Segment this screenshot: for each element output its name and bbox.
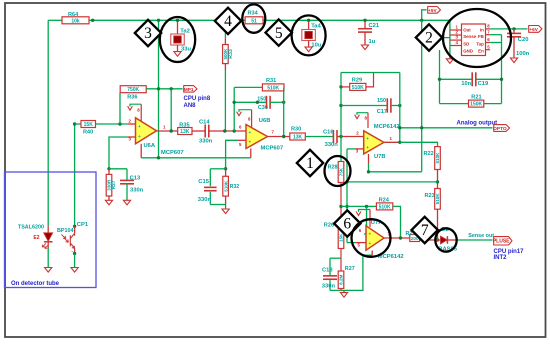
svg-text:Analog output: Analog output [457, 121, 498, 127]
wire LED supply drop [47, 20, 49, 226]
svg-text:510K: 510K [379, 204, 391, 210]
supply tag +5V [422, 10, 427, 20]
regulator U8 body [462, 24, 486, 56]
ground Ta2 [174, 52, 181, 57]
wire bias line [347, 181, 438, 183]
resistor R29 [341, 86, 350, 88]
svg-text:R36: R36 [127, 95, 137, 101]
svg-text:Ta2: Ta2 [180, 28, 190, 34]
svg-text:C30: C30 [258, 105, 268, 111]
wire feedback to output [283, 87, 285, 136]
wire regulator feedback left [439, 50, 441, 104]
svg-text:C21: C21 [369, 23, 380, 29]
svg-text:510K: 510K [435, 193, 440, 205]
wire U7A noninverting input [347, 242, 356, 244]
svg-text:510K: 510K [352, 85, 364, 91]
svg-text:5: 5 [275, 25, 283, 42]
svg-text:R33: R33 [228, 49, 234, 59]
svg-text:Tap: Tap [476, 41, 484, 46]
svg-text:INT2: INT2 [494, 255, 508, 261]
capacitor C13 [126, 169, 128, 181]
capacitor C19 [440, 78, 473, 80]
diamond 3 [135, 20, 161, 46]
capacitor Ta4 [308, 20, 310, 29]
svg-text:R29: R29 [352, 77, 362, 83]
svg-text:1u: 1u [369, 39, 376, 45]
svg-text:CP1: CP1 [77, 222, 89, 228]
svg-text:4: 4 [456, 40, 459, 45]
svg-text:R21: R21 [471, 95, 481, 101]
svg-text:Out: Out [463, 28, 471, 33]
node C18 R27 top [330, 257, 341, 259]
capacitor C14 [192, 130, 205, 132]
svg-text:1: 1 [306, 155, 314, 172]
svg-text:6: 6 [359, 228, 362, 233]
svg-text:+: + [366, 145, 369, 150]
power arrow U6B [239, 110, 252, 112]
resistor R22 [435, 147, 441, 170]
svg-text:R30: R30 [291, 127, 301, 133]
svg-text:13K: 13K [293, 135, 303, 141]
svg-text:8: 8 [248, 117, 251, 122]
svg-text:C15: C15 [198, 179, 209, 185]
wire R40 to U6A inverting input [96, 123, 129, 125]
diamond 6 [334, 210, 360, 236]
wire +5V to opamp rail [158, 20, 160, 158]
svg-text:330n: 330n [199, 138, 213, 144]
svg-text:51: 51 [251, 18, 257, 24]
svg-text:8: 8 [487, 24, 490, 29]
svg-text:+: + [369, 241, 372, 246]
wire R30 to C16 [305, 136, 333, 138]
svg-text:R35: R35 [179, 122, 189, 128]
wire analog output [400, 127, 493, 129]
svg-text:2: 2 [129, 119, 132, 124]
wire opamp ground rail [141, 157, 251, 159]
svg-text:750K: 750K [127, 87, 139, 93]
wire regulator output +6V [490, 28, 527, 30]
diode D2 [441, 236, 448, 244]
supply tag +6V [529, 26, 542, 33]
diamond 7 [412, 217, 438, 243]
wire feedback riser [233, 87, 235, 131]
svg-text:C17: C17 [377, 109, 387, 115]
wire to C15 [210, 168, 225, 170]
svg-text:+: + [249, 140, 252, 145]
junction after R64 [91, 19, 94, 22]
svg-text:15K: 15K [339, 233, 344, 242]
svg-text:GND: GND [463, 49, 473, 54]
svg-text:Sense out: Sense out [468, 233, 494, 239]
wire feedback top [341, 72, 400, 74]
svg-text:330n: 330n [130, 188, 144, 194]
wire R33 to U6B input node [224, 70, 226, 131]
power arrow U6A [130, 104, 141, 106]
svg-text:+6V: +6V [529, 27, 538, 32]
svg-text:R31: R31 [266, 78, 276, 84]
resistor R31 [234, 86, 262, 88]
capacitor C16 [332, 130, 334, 143]
svg-text:33u: 33u [181, 47, 191, 53]
wire U6B noninverting input [226, 140, 238, 169]
ellipse U7A [352, 219, 391, 257]
svg-text:Sense: Sense [463, 34, 476, 39]
wire photodiode to R40 [74, 124, 76, 226]
svg-text:SD: SD [463, 41, 469, 46]
ground stage4 [343, 290, 345, 292]
svg-text:+: + [366, 136, 369, 141]
wire U7B output [384, 141, 400, 143]
svg-text:+: + [369, 231, 372, 236]
resistor R35 [178, 128, 192, 135]
svg-text:510K: 510K [267, 85, 279, 91]
node C15 R32 top [224, 167, 227, 170]
svg-text:PLUSE: PLUSE [493, 239, 510, 245]
svg-text:MP1: MP1 [184, 87, 194, 93]
wire U6A noninverting input [109, 137, 128, 169]
wire U7B output to R22 [400, 142, 438, 146]
svg-text:AN8: AN8 [184, 103, 197, 109]
svg-text:5: 5 [487, 44, 490, 49]
diamond 5 [266, 19, 292, 45]
svg-text:MCP6142: MCP6142 [374, 124, 400, 130]
svg-text:3: 3 [144, 25, 152, 42]
svg-text:510K: 510K [223, 180, 228, 192]
svg-text:330n: 330n [325, 142, 339, 148]
ellipse D2 [435, 228, 456, 251]
svg-text:7: 7 [421, 222, 429, 239]
resistor R24 [376, 203, 392, 210]
resistor R28 [340, 160, 342, 163]
capacitor Ta2 [177, 20, 179, 34]
svg-text:Ta4: Ta4 [311, 23, 321, 29]
power arrow U7B [357, 113, 368, 115]
svg-text:En: En [478, 49, 484, 54]
resistor R37 [108, 169, 110, 175]
wire sense out [456, 239, 493, 241]
svg-text:BP104: BP104 [57, 228, 73, 234]
ground C15 R32 [222, 209, 229, 214]
svg-text:U6B: U6B [259, 118, 271, 124]
tag PLUSE [494, 237, 512, 245]
regulator U8 pins left [450, 29, 462, 31]
svg-text:R40: R40 [83, 130, 93, 136]
svg-text:C20: C20 [518, 37, 529, 43]
svg-text:10k: 10k [71, 18, 80, 24]
svg-text:150K: 150K [470, 102, 482, 108]
svg-text:150: 150 [257, 96, 266, 102]
svg-text:R34: R34 [248, 11, 259, 17]
wire minus column [340, 73, 342, 162]
svg-text:15K: 15K [84, 122, 94, 128]
ellipse regulator [443, 9, 511, 67]
svg-text:R27: R27 [345, 266, 355, 272]
resistor R25 [410, 235, 420, 242]
resistor R40 [75, 123, 81, 125]
resistor R36 [119, 88, 121, 90]
wire R36 to MP1 and output [146, 88, 182, 90]
diamond 4 [215, 8, 241, 34]
detector tube enclosure [5, 172, 97, 288]
svg-text:6: 6 [343, 216, 351, 233]
svg-text:510K: 510K [435, 152, 440, 164]
wire bias node to C13 [109, 168, 127, 170]
svg-text:C18: C18 [322, 267, 333, 273]
svg-text:2: 2 [356, 130, 359, 135]
svg-text:1: 1 [163, 125, 166, 130]
LED TSAL6200 [47, 226, 49, 232]
svg-text:In: In [480, 28, 484, 33]
wire U7B V- to rail [368, 163, 370, 172]
svg-text:+: + [138, 134, 141, 139]
ellipse R28 [325, 156, 351, 186]
wire C15 R32 bottom [210, 204, 225, 206]
ellipse R34 [242, 4, 265, 32]
ground LED [45, 268, 52, 273]
resistor R30 [290, 133, 306, 140]
ground photodiode [71, 268, 78, 273]
svg-text:10n: 10n [461, 81, 471, 87]
ground R37 [105, 200, 112, 205]
svg-text:330n: 330n [198, 197, 212, 203]
svg-text:1: 1 [390, 136, 393, 141]
ground C21 [361, 45, 368, 50]
svg-text:75K: 75K [339, 167, 344, 176]
node bias junction [107, 167, 110, 170]
svg-text:R64: R64 [68, 12, 79, 18]
svg-text:R22: R22 [424, 151, 434, 157]
svg-text:5: 5 [239, 142, 242, 147]
ellipse Ta2 [160, 17, 195, 62]
svg-text:MCP607: MCP607 [261, 145, 284, 151]
wire U7B noninverting input [347, 148, 356, 150]
svg-text:CPU pin8: CPU pin8 [184, 96, 211, 102]
wire feedback to R36 [119, 93, 121, 124]
svg-text:R24: R24 [379, 197, 390, 203]
power arrow U7A [359, 210, 371, 212]
wire R25 to D2 [420, 239, 441, 241]
wire +5V rail down right side [421, 20, 423, 172]
resistor R33 [224, 20, 226, 38]
svg-text:8.2M: 8.2M [339, 274, 344, 284]
svg-text:OPTO: OPTO [493, 126, 507, 132]
wire U7A output [384, 237, 410, 239]
svg-text:C19: C19 [478, 81, 489, 87]
wire regulator input [422, 37, 450, 39]
svg-text:8: 8 [137, 108, 140, 113]
tag OPTO [494, 125, 510, 132]
svg-text:+: + [138, 124, 141, 129]
regulator U8 pins right [486, 28, 491, 30]
resistor R27 [340, 258, 342, 271]
photodiode BP104 [73, 225, 76, 228]
wire output feedback drop [170, 89, 172, 131]
resistor R64 [62, 17, 89, 24]
resistor R26 [338, 227, 344, 249]
svg-text:On detector tube: On detector tube [11, 281, 60, 287]
svg-text:7: 7 [487, 29, 490, 34]
svg-text:C14: C14 [199, 120, 210, 126]
svg-text:2: 2 [425, 30, 433, 47]
svg-text:R28: R28 [328, 164, 338, 170]
svg-text:4: 4 [224, 13, 232, 30]
svg-text:150: 150 [377, 98, 386, 104]
resistor R34 [245, 17, 263, 24]
svg-text:R23: R23 [425, 193, 435, 199]
svg-text:+: + [249, 130, 252, 135]
svg-text:8: 8 [365, 116, 368, 121]
wire C16 to U7B inverting input [337, 136, 365, 138]
wire feedback right riser [399, 73, 401, 143]
capacitor C21 [364, 20, 366, 28]
tag MP1 [184, 86, 197, 93]
svg-text:6: 6 [239, 125, 242, 130]
svg-text:10u: 10u [311, 42, 321, 48]
svg-text:R37: R37 [111, 180, 117, 189]
svg-text:7: 7 [272, 130, 275, 135]
ground regulator [449, 46, 451, 59]
capacitor C30 [234, 101, 266, 103]
svg-text:C16: C16 [323, 130, 334, 136]
capacitor C18 [329, 258, 331, 275]
diamond 2 [416, 24, 442, 50]
svg-text:E2: E2 [33, 235, 39, 241]
svg-text:100n: 100n [516, 51, 530, 57]
resistor R21 [440, 103, 469, 105]
wire plus bias column [346, 149, 348, 243]
node plus bias to R24 [341, 205, 376, 207]
svg-text:C13: C13 [130, 176, 141, 182]
ground Ta4 [305, 47, 312, 52]
wire U6A output [157, 130, 178, 132]
diamond 1 [297, 150, 323, 176]
svg-text:MCP607: MCP607 [161, 150, 184, 156]
svg-text:R26: R26 [324, 223, 334, 229]
svg-text:TSAL6200: TSAL6200 [18, 225, 44, 231]
svg-text:R32: R32 [230, 184, 240, 190]
svg-text:U7B: U7B [374, 154, 386, 160]
capacitor C17 [341, 105, 387, 107]
wire U7A inverting input [364, 206, 367, 234]
wire C14 to U6B inverting input [209, 130, 246, 132]
wire +5V rail [48, 19, 62, 21]
svg-text:6: 6 [487, 37, 490, 42]
svg-text:+5V: +5V [428, 8, 437, 13]
svg-text:FB: FB [478, 34, 484, 39]
ground C20 [510, 58, 517, 63]
resistor R32 [225, 169, 227, 177]
ellipse Ta4 [292, 15, 326, 55]
ground C13 [123, 200, 130, 205]
svg-text:330n: 330n [322, 283, 336, 289]
wire regulator feedback right [501, 35, 503, 104]
capacitor C15 [209, 169, 211, 186]
resistor R23 [435, 189, 441, 210]
capacitor C20 [513, 29, 515, 34]
wire U7A ground path [330, 255, 372, 290]
wire U6B output [268, 136, 290, 138]
svg-text:U6A: U6A [144, 143, 156, 149]
svg-text:13K: 13K [180, 129, 190, 135]
